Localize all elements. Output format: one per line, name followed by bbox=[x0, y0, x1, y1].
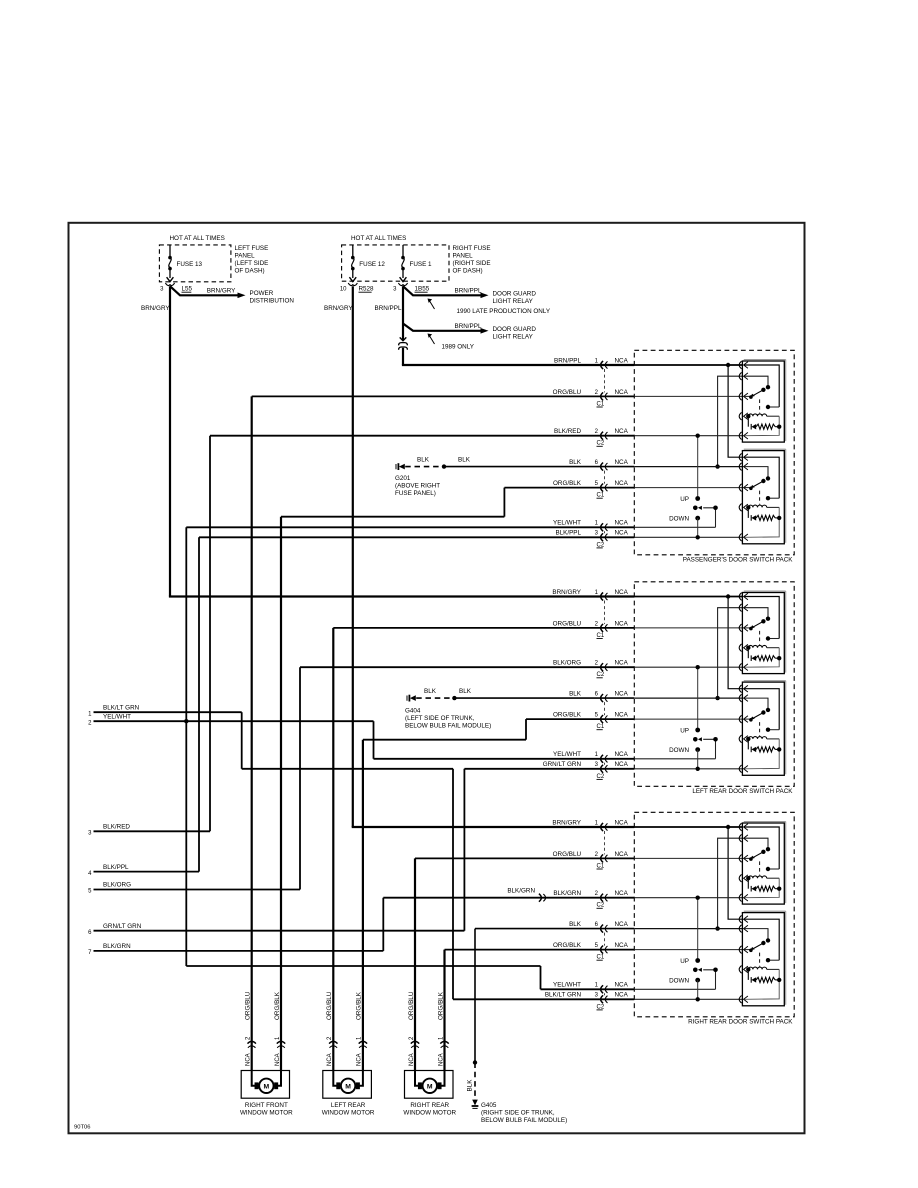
illumination resistor (RIGHT REAR DOOR SWITCH PACK switch unit A) bbox=[746, 876, 750, 880]
svg-text:90T06: 90T06 bbox=[74, 1125, 90, 1131]
svg-text:UP: UP bbox=[680, 958, 689, 965]
junction wiper corner (PASSENGER'S DOOR SWITCH PACK) bbox=[713, 506, 718, 511]
wire YEL/WHT trunk x=186 bbox=[185, 527, 187, 966]
svg-text:BELOW BULB FAIL MODULE): BELOW BULB FAIL MODULE) bbox=[481, 1117, 567, 1124]
junction resistor out (RIGHT REAR DOOR SWITCH PACK switch unit A) bbox=[777, 887, 781, 891]
motor M (right front window motor) bbox=[259, 1079, 273, 1093]
wire pin3 stub (LEFT REAR DOOR SWITCH PACK switch unit B) bbox=[745, 718, 751, 720]
left fuse panel box (dashed) bbox=[159, 245, 231, 282]
connector NCA (LEFT REAR DOOR SWITCH PACK BLK) bbox=[601, 694, 603, 702]
connector NCA (PASSENGER'S DOOR SWITCH PACK BLK) bbox=[601, 463, 603, 471]
wire ORG/BLU row into passenger pack bbox=[252, 395, 635, 397]
svg-text:LEFT REAR: LEFT REAR bbox=[331, 1102, 366, 1109]
wire pin3 stub (LEFT REAR DOOR SWITCH PACK switch unit A) bbox=[745, 627, 751, 629]
connector NCA (LEFT REAR DOOR SWITCH PACK ORG/BLU) bbox=[601, 624, 603, 632]
wire wiper stub (LEFT REAR DOOR SWITCH PACK) bbox=[703, 739, 715, 759]
illumination resistor (PASSENGER'S DOOR SWITCH PACK switch unit B) bbox=[746, 505, 750, 509]
svg-text:C2: C2 bbox=[597, 1004, 605, 1010]
svg-text:UP: UP bbox=[680, 496, 689, 503]
junction on row7 (RIGHT REAR DOOR SWITCH PACK) bbox=[696, 997, 700, 1001]
switch unit box (PASSENGER'S DOOR SWITCH PACK switch unit A) bbox=[744, 359, 786, 361]
wire ORG/BLK row into passenger pack bbox=[504, 487, 634, 489]
ground G201 bbox=[395, 464, 397, 469]
svg-text:R528: R528 bbox=[359, 286, 375, 293]
svg-text:WINDOW MOTOR: WINDOW MOTOR bbox=[322, 1109, 375, 1116]
connector NCA ORG/BLU (left rear window motor) bbox=[329, 1041, 337, 1043]
svg-text:YEL/WHT: YEL/WHT bbox=[103, 713, 131, 720]
motor terminals (right rear window motor) bbox=[418, 1083, 421, 1089]
svg-text:M: M bbox=[427, 1083, 433, 1090]
svg-text:C1: C1 bbox=[597, 863, 605, 869]
wire row4 inside (RIGHT REAR DOOR SWITCH PACK) bbox=[634, 928, 742, 930]
wire ORG/BLK jog horizontal y=516.7 bbox=[281, 516, 504, 518]
svg-text:1989 ONLY: 1989 ONLY bbox=[442, 343, 475, 350]
svg-text:NCA: NCA bbox=[615, 712, 629, 719]
svg-text:NCA: NCA bbox=[615, 819, 629, 826]
wire switch column lower (LEFT REAR DOOR SWITCH PACK) bbox=[697, 750, 699, 769]
connector inline BLK/GRN (right rear) bbox=[539, 894, 541, 902]
svg-text:RIGHT FRONT: RIGHT FRONT bbox=[245, 1102, 288, 1109]
svg-text:C1: C1 bbox=[597, 493, 605, 499]
svg-text:NCA: NCA bbox=[438, 1053, 444, 1066]
svg-text:PANEL: PANEL bbox=[453, 253, 474, 260]
contact wiper pair (RIGHT REAR DOOR SWITCH PACK) bbox=[693, 968, 698, 973]
svg-text:RIGHT REAR DOOR SWITCH PACK: RIGHT REAR DOOR SWITCH PACK bbox=[688, 1018, 793, 1025]
contact DOWN (RIGHT REAR DOOR SWITCH PACK) bbox=[695, 978, 700, 983]
svg-text:FUSE 12: FUSE 12 bbox=[359, 261, 385, 268]
wire common loop (RIGHT REAR DOOR SWITCH PACK switch unit B) bbox=[745, 919, 780, 960]
wire common loop (PASSENGER'S DOOR SWITCH PACK switch unit A) bbox=[745, 365, 780, 407]
connector NCA ORG/BLK (right front window motor) bbox=[277, 1041, 285, 1043]
wire power branch to lower box (RIGHT REAR DOOR SWITCH PACK) bbox=[728, 827, 742, 919]
svg-text:BLK: BLK bbox=[417, 456, 430, 463]
wire BLK solid to G405 bbox=[474, 929, 476, 1063]
svg-text:G201: G201 bbox=[395, 475, 411, 482]
mechanical link (dashed) (PASSENGER'S DOOR SWITCH PACK switch unit A) bbox=[759, 399, 761, 413]
svg-text:BRN/GRY: BRN/GRY bbox=[141, 305, 170, 312]
svg-text:LEFT REAR DOOR SWITCH PACK: LEFT REAR DOOR SWITCH PACK bbox=[692, 788, 793, 795]
wire BLK/PPL from main window switch pin 4 bbox=[94, 871, 200, 873]
contact upper stationary (LEFT REAR DOOR SWITCH PACK switch unit A) bbox=[766, 617, 770, 621]
svg-text:YEL/WHT: YEL/WHT bbox=[553, 751, 581, 758]
svg-text:NCA: NCA bbox=[615, 459, 629, 466]
junction resistor out (LEFT REAR DOOR SWITCH PACK switch unit A) bbox=[777, 656, 781, 660]
svg-text:YEL/WHT: YEL/WHT bbox=[553, 982, 581, 989]
svg-text:BLK/LT GRN: BLK/LT GRN bbox=[103, 704, 140, 711]
junction power branch (PASSENGER'S DOOR SWITCH PACK) bbox=[726, 363, 730, 367]
wire lamp loop return (PASSENGER'S DOOR SWITCH PACK switch unit B) bbox=[745, 507, 780, 537]
wire wiper stub (RIGHT REAR DOOR SWITCH PACK) bbox=[703, 970, 715, 990]
svg-text:ORG/BLU: ORG/BLU bbox=[408, 991, 415, 1020]
wire BLK/ORG trunk x=300 bbox=[299, 667, 301, 889]
svg-text:NCA: NCA bbox=[409, 1053, 415, 1066]
svg-text:ORG/BLU: ORG/BLU bbox=[553, 389, 582, 396]
connector pins at box edge (RIGHT REAR DOOR SWITCH PACK switch unit B) bbox=[739, 915, 741, 923]
svg-text:(LEFT SIDE: (LEFT SIDE bbox=[235, 260, 269, 267]
svg-text:NCA: NCA bbox=[275, 1053, 281, 1066]
svg-text:C1: C1 bbox=[597, 955, 605, 961]
right fuse panel box (dashed) bbox=[342, 245, 449, 281]
svg-text:10: 10 bbox=[340, 287, 347, 293]
contact lower stationary (LEFT REAR DOOR SWITCH PACK switch unit A) bbox=[766, 636, 770, 640]
junction on row7 (LEFT REAR DOOR SWITCH PACK) bbox=[696, 767, 700, 771]
wire BLK/RED from main window switch pin 3 bbox=[94, 830, 211, 832]
wire power branch to lower box (LEFT REAR DOOR SWITCH PACK) bbox=[728, 597, 742, 689]
wire YEL/WHT elbow trunk x=373.5 bbox=[373, 721, 375, 759]
svg-text:LEFT FUSE: LEFT FUSE bbox=[235, 245, 269, 252]
junction resistor out (PASSENGER'S DOOR SWITCH PACK switch unit B) bbox=[777, 516, 781, 520]
wire row5 inside (RIGHT REAR DOOR SWITCH PACK) bbox=[634, 949, 742, 951]
connector group dash C1 (LEFT REAR DOOR SWITCH PACK) bbox=[604, 601, 606, 624]
wire BLK/ORG from main window switch pin 5 bbox=[94, 889, 301, 891]
svg-text:OF DASH): OF DASH) bbox=[235, 268, 265, 275]
junction on row3 (LEFT REAR DOOR SWITCH PACK) bbox=[696, 665, 700, 669]
wire YEL/WHT row into right rear pack bbox=[541, 988, 635, 990]
connector pins at box edge (LEFT REAR DOOR SWITCH PACK switch unit B) bbox=[739, 685, 741, 693]
switch pack box RIGHT REAR DOOR SWITCH PACK (dashed) bbox=[634, 812, 794, 1017]
window motor box (right rear window motor) bbox=[405, 1071, 454, 1099]
wire power row inside (PASSENGER'S DOOR SWITCH PACK) bbox=[634, 364, 742, 366]
wire GRN/LT GRN row into left rear pack bbox=[464, 768, 634, 770]
wire row4 inside (LEFT REAR DOOR SWITCH PACK) bbox=[634, 697, 742, 699]
wire contact stub lower (LEFT REAR DOOR SWITCH PACK switch unit B) bbox=[768, 729, 779, 731]
junction BLK G405 bbox=[473, 1060, 477, 1064]
wire BLK/RED trunk x=210 bbox=[209, 436, 211, 832]
wire lamp loop return (PASSENGER'S DOOR SWITCH PACK switch unit A) bbox=[745, 416, 780, 436]
connector NCA (RIGHT REAR DOOR SWITCH PACK BRN/GRY) bbox=[601, 823, 603, 831]
junction ground branch (RIGHT REAR DOOR SWITCH PACK) bbox=[715, 926, 719, 930]
svg-text:FUSE PANEL): FUSE PANEL) bbox=[395, 490, 436, 497]
wire row5 inside (PASSENGER'S DOOR SWITCH PACK) bbox=[634, 487, 742, 489]
wire BLK dashed to G404 bbox=[416, 697, 452, 699]
svg-text:BLK: BLK bbox=[458, 456, 471, 463]
connector NCA (RIGHT REAR DOOR SWITCH PACK BLK/LT GRN) bbox=[601, 995, 603, 1003]
wire switch column upper (LEFT REAR DOOR SWITCH PACK) bbox=[697, 667, 699, 730]
contact DOWN (LEFT REAR DOOR SWITCH PACK) bbox=[695, 747, 700, 752]
wire ground branch to upper box (RIGHT REAR DOOR SWITCH PACK) bbox=[718, 838, 743, 928]
mechanical link (dashed) (LEFT REAR DOOR SWITCH PACK switch unit A) bbox=[759, 631, 761, 645]
junction resistor out (PASSENGER'S DOOR SWITCH PACK switch unit A) bbox=[777, 425, 781, 429]
wire row3 inside (RIGHT REAR DOOR SWITCH PACK) bbox=[634, 897, 742, 899]
wire lamp loop return (RIGHT REAR DOOR SWITCH PACK switch unit A) bbox=[745, 878, 780, 898]
wire BRN/GRY row into right rear pack bbox=[352, 826, 635, 828]
illumination resistor (LEFT REAR DOOR SWITCH PACK switch unit B) bbox=[746, 737, 750, 741]
connector NCA (PASSENGER'S DOOR SWITCH PACK ORG/BLU) bbox=[601, 392, 603, 400]
wire switch column lower (PASSENGER'S DOOR SWITCH PACK) bbox=[697, 518, 699, 537]
svg-text:BRN/PPL: BRN/PPL bbox=[554, 357, 581, 364]
svg-text:BLK/GRN: BLK/GRN bbox=[507, 888, 535, 895]
motor M (left rear window motor) bbox=[341, 1079, 355, 1093]
wire power row inside (LEFT REAR DOOR SWITCH PACK) bbox=[634, 596, 742, 598]
switch lever (RIGHT REAR DOOR SWITCH PACK switch unit A) bbox=[761, 850, 765, 854]
wire BLK row into left rear pack bbox=[454, 697, 634, 699]
diagram border frame bbox=[69, 223, 805, 1134]
connector NCA (PASSENGER'S DOOR SWITCH PACK BLK/RED) bbox=[601, 432, 603, 440]
junction power branch (RIGHT REAR DOOR SWITCH PACK) bbox=[726, 825, 730, 829]
svg-text:BRN/GRY: BRN/GRY bbox=[552, 819, 581, 826]
wire YEL/WHT from main window switch pin 2 bbox=[94, 720, 374, 722]
junction power branch (LEFT REAR DOOR SWITCH PACK) bbox=[726, 594, 730, 598]
motor terminals (left rear window motor) bbox=[337, 1083, 340, 1089]
junction BLK G404 bbox=[452, 696, 456, 700]
wire BRN/GRY trunk from fuse 13 to left rear pack bbox=[169, 286, 171, 596]
svg-text:LIGHT RELAY: LIGHT RELAY bbox=[493, 298, 534, 305]
wire from pin2 to upper contact (PASSENGER'S DOOR SWITCH PACK switch unit B) bbox=[745, 467, 769, 479]
connector NCA ORG/BLK (right rear window motor) bbox=[440, 1041, 448, 1043]
wire ORG/BLU row into left rear pack bbox=[333, 627, 634, 629]
contact lower stationary (RIGHT REAR DOOR SWITCH PACK switch unit A) bbox=[766, 867, 770, 871]
wire switch column upper (RIGHT REAR DOOR SWITCH PACK) bbox=[697, 898, 699, 961]
wire from pin2 to upper contact (LEFT REAR DOOR SWITCH PACK switch unit B) bbox=[745, 698, 769, 710]
wire from pin2 to upper contact (LEFT REAR DOOR SWITCH PACK switch unit A) bbox=[745, 608, 769, 619]
wire BLK/PPL trunk x=199 bbox=[198, 537, 200, 871]
svg-text:RIGHT FUSE: RIGHT FUSE bbox=[453, 245, 491, 252]
switch pack box PASSENGER'S DOOR SWITCH PACK (dashed) bbox=[634, 350, 794, 555]
svg-text:PANEL: PANEL bbox=[235, 253, 256, 260]
wire ORG/BLK row into right rear pack bbox=[445, 949, 635, 951]
wire BLK dashed to G405 bbox=[474, 1063, 476, 1101]
wire BRN/PPL branch to door guard light relay (1990) bbox=[403, 286, 481, 295]
switch lever (PASSENGER'S DOOR SWITCH PACK switch unit B) bbox=[761, 479, 765, 483]
connector NCA (RIGHT REAR DOOR SWITCH PACK ORG/BLU) bbox=[601, 854, 603, 862]
wire row6 inside (LEFT REAR DOOR SWITCH PACK) bbox=[634, 758, 715, 760]
wire switch column upper (PASSENGER'S DOOR SWITCH PACK) bbox=[697, 436, 699, 499]
svg-text:NCA: NCA bbox=[615, 480, 629, 487]
switch unit box (RIGHT REAR DOOR SWITCH PACK switch unit A) bbox=[744, 821, 786, 823]
svg-text:C2: C2 bbox=[597, 903, 605, 909]
wire ORG/BLK into motor (right rear window motor) bbox=[439, 1071, 444, 1086]
svg-text:G405: G405 bbox=[481, 1102, 497, 1109]
wire switch column lower (RIGHT REAR DOOR SWITCH PACK) bbox=[697, 980, 699, 999]
junction on row3 (RIGHT REAR DOOR SWITCH PACK) bbox=[696, 896, 700, 900]
wire ORG/BLU into motor (left rear window motor) bbox=[333, 1071, 338, 1086]
wire BLK row into right rear pack bbox=[475, 928, 634, 930]
svg-text:C1: C1 bbox=[597, 401, 605, 407]
wire row4 inside (PASSENGER'S DOOR SWITCH PACK) bbox=[634, 466, 742, 468]
wire YEL/WHT jog horizontal y=966 bbox=[186, 965, 540, 967]
wire ORG/BLU into motor (right rear window motor) bbox=[415, 1071, 420, 1086]
wire BLK/LT GRN from main window switch pin 1 bbox=[94, 711, 242, 713]
junction on row7 (PASSENGER'S DOOR SWITCH PACK) bbox=[696, 535, 700, 539]
wire BRN/PPL branch to door guard light relay (1989) bbox=[403, 324, 481, 331]
wire contact stub lower (PASSENGER'S DOOR SWITCH PACK switch unit A) bbox=[768, 406, 779, 408]
svg-text:NCA: NCA bbox=[615, 992, 629, 999]
illumination resistor (PASSENGER'S DOOR SWITCH PACK switch unit A) bbox=[746, 414, 750, 418]
wire from pin2 to upper contact (RIGHT REAR DOOR SWITCH PACK switch unit B) bbox=[745, 929, 769, 941]
junction resistor out (RIGHT REAR DOOR SWITCH PACK switch unit B) bbox=[777, 978, 781, 982]
svg-text:NCA: NCA bbox=[357, 1053, 363, 1066]
svg-text:NCA: NCA bbox=[615, 691, 629, 698]
contact upper stationary (PASSENGER'S DOOR SWITCH PACK switch unit A) bbox=[766, 385, 770, 389]
svg-text:(RIGHT SIDE OF TRUNK,: (RIGHT SIDE OF TRUNK, bbox=[481, 1109, 555, 1116]
ground G404 bbox=[406, 696, 408, 701]
illumination resistor (LEFT REAR DOOR SWITCH PACK switch unit A) bbox=[746, 646, 750, 650]
connector NCA (RIGHT REAR DOOR SWITCH PACK BLK/GRN) bbox=[601, 894, 603, 902]
wire ground branch to upper box (LEFT REAR DOOR SWITCH PACK) bbox=[718, 608, 743, 698]
junction ground branch (LEFT REAR DOOR SWITCH PACK) bbox=[715, 696, 719, 700]
svg-text:NCA: NCA bbox=[615, 389, 629, 396]
wire ORG/BLK jog vertical x=526 (left rear pack) bbox=[525, 719, 527, 740]
connector NCA (RIGHT REAR DOOR SWITCH PACK ORG/BLK) bbox=[601, 946, 603, 954]
ground G405 bbox=[472, 1107, 477, 1109]
svg-text:(RIGHT SIDE: (RIGHT SIDE bbox=[453, 260, 491, 267]
contact lower stationary (RIGHT REAR DOOR SWITCH PACK switch unit B) bbox=[766, 958, 770, 962]
wire lamp loop return (LEFT REAR DOOR SWITCH PACK switch unit A) bbox=[745, 648, 780, 668]
svg-text:ORG/BLK: ORG/BLK bbox=[553, 942, 582, 949]
svg-text:WINDOW MOTOR: WINDOW MOTOR bbox=[403, 1109, 456, 1116]
wire ORG/BLU into motor (right front window motor) bbox=[252, 1071, 257, 1086]
switch unit box (LEFT REAR DOOR SWITCH PACK switch unit B) bbox=[744, 680, 786, 682]
mechanical link (dashed) (LEFT REAR DOOR SWITCH PACK switch unit B) bbox=[759, 722, 761, 736]
wire BRN/PPL row into passenger pack bbox=[402, 364, 634, 366]
wire ORG/BLK trunk to left rear motor bbox=[362, 740, 364, 1071]
svg-text:NCA: NCA bbox=[615, 942, 629, 949]
svg-text:BRN/PPL: BRN/PPL bbox=[455, 288, 482, 295]
svg-text:DOWN: DOWN bbox=[669, 977, 689, 984]
svg-text:BLK: BLK bbox=[467, 1079, 474, 1092]
wire lamp loop return (LEFT REAR DOOR SWITCH PACK switch unit B) bbox=[745, 739, 780, 769]
connector NCA (RIGHT REAR DOOR SWITCH PACK BLK) bbox=[601, 925, 603, 933]
connector NCA (PASSENGER'S DOOR SWITCH PACK BRN/PPL) bbox=[601, 361, 603, 369]
wire ORG/BLK into motor (left rear window motor) bbox=[358, 1071, 363, 1086]
motor M (right rear window motor) bbox=[423, 1079, 437, 1093]
annotation arrow (1989 only) bbox=[429, 335, 435, 344]
svg-text:C1: C1 bbox=[597, 633, 605, 639]
svg-text:BLK/RED: BLK/RED bbox=[103, 824, 130, 831]
svg-text:HOT AT ALL TIMES: HOT AT ALL TIMES bbox=[351, 235, 406, 242]
wire ORG/BLK jog horizontal y=739.7 bbox=[363, 739, 526, 741]
contact lower stationary (LEFT REAR DOOR SWITCH PACK switch unit B) bbox=[766, 728, 770, 732]
mechanical link (dashed) (RIGHT REAR DOOR SWITCH PACK switch unit B) bbox=[759, 953, 761, 967]
fuse FUSE 13 bbox=[169, 245, 171, 256]
connector pins at box edge (LEFT REAR DOOR SWITCH PACK switch unit A) bbox=[739, 593, 741, 601]
svg-text:GRN/LT GRN: GRN/LT GRN bbox=[103, 923, 142, 930]
wire row2 inside (PASSENGER'S DOOR SWITCH PACK) bbox=[634, 395, 742, 397]
svg-text:M: M bbox=[264, 1083, 270, 1090]
contact lower stationary (PASSENGER'S DOOR SWITCH PACK switch unit B) bbox=[766, 496, 770, 500]
wire power branch to lower box (PASSENGER'S DOOR SWITCH PACK) bbox=[728, 365, 742, 457]
connector NCA (PASSENGER'S DOOR SWITCH PACK YEL/WHT) bbox=[601, 523, 603, 531]
wire ORG/BLU row into right rear pack bbox=[415, 857, 634, 859]
wire BLK/ORG row into left rear pack bbox=[300, 666, 634, 668]
wire pin3 stub (RIGHT REAR DOOR SWITCH PACK switch unit A) bbox=[745, 857, 751, 859]
junction YEL/WHT bundle bbox=[184, 719, 188, 723]
svg-text:ORG/BLU: ORG/BLU bbox=[245, 991, 252, 1020]
wire common loop (LEFT REAR DOOR SWITCH PACK switch unit B) bbox=[745, 689, 780, 730]
wire BLK/GRN elbow x=383.3 bbox=[382, 898, 384, 951]
svg-text:HOT AT ALL TIMES: HOT AT ALL TIMES bbox=[170, 235, 225, 242]
wire BLK/PPL row into passenger pack bbox=[199, 536, 634, 538]
wire BRN/GRY fuse13 feed branch to power distribution bbox=[170, 286, 238, 295]
connector pins at box edge (PASSENGER'S DOOR SWITCH PACK switch unit B) bbox=[739, 453, 741, 461]
wire BLK/GRN from main window switch pin 7 bbox=[94, 950, 384, 952]
svg-text:NCA: NCA bbox=[615, 921, 629, 928]
svg-text:RIGHT REAR: RIGHT REAR bbox=[410, 1102, 449, 1109]
svg-text:NCA: NCA bbox=[615, 660, 629, 667]
svg-text:NCA: NCA bbox=[615, 890, 629, 897]
svg-text:ORG/BLK: ORG/BLK bbox=[274, 991, 281, 1020]
wire lamp loop return (RIGHT REAR DOOR SWITCH PACK switch unit B) bbox=[745, 969, 780, 999]
svg-text:BLK/ORG: BLK/ORG bbox=[103, 882, 131, 889]
connector NCA ORG/BLU (right front window motor) bbox=[248, 1041, 256, 1043]
diode and resistor (RIGHT REAR DOOR SWITCH PACK switch unit B) bbox=[747, 969, 749, 980]
svg-text:PASSENGER'S DOOR SWITCH PACK: PASSENGER'S DOOR SWITCH PACK bbox=[683, 556, 794, 563]
contact upper stationary (RIGHT REAR DOOR SWITCH PACK switch unit B) bbox=[766, 938, 770, 942]
wire contact stub lower (RIGHT REAR DOOR SWITCH PACK switch unit A) bbox=[768, 868, 779, 870]
connector NCA (LEFT REAR DOOR SWITCH PACK YEL/WHT) bbox=[601, 755, 603, 763]
svg-text:BLK: BLK bbox=[569, 459, 582, 466]
wire power row inside (RIGHT REAR DOOR SWITCH PACK) bbox=[634, 826, 742, 828]
wire contact stub lower (PASSENGER'S DOOR SWITCH PACK switch unit B) bbox=[768, 497, 779, 499]
mechanical link (dashed) (PASSENGER'S DOOR SWITCH PACK switch unit B) bbox=[759, 491, 761, 505]
svg-text:1990 LATE PRODUCTION ONLY: 1990 LATE PRODUCTION ONLY bbox=[457, 308, 551, 315]
svg-text:FUSE 1: FUSE 1 bbox=[410, 261, 433, 268]
svg-text:1B55: 1B55 bbox=[415, 286, 430, 293]
connector NCA ORG/BLK (left rear window motor) bbox=[359, 1041, 367, 1043]
svg-text:NCA: NCA bbox=[615, 520, 629, 527]
wire BLK/GRN row into right rear pack bbox=[383, 897, 634, 899]
svg-text:DISTRIBUTION: DISTRIBUTION bbox=[250, 297, 295, 304]
svg-text:ORG/BLK: ORG/BLK bbox=[553, 480, 582, 487]
svg-text:DOOR GUARD: DOOR GUARD bbox=[493, 291, 537, 298]
connector NCA (LEFT REAR DOOR SWITCH PACK BRN/GRY) bbox=[601, 593, 603, 601]
svg-text:BLK/GRN: BLK/GRN bbox=[103, 943, 131, 950]
svg-text:OF DASH): OF DASH) bbox=[453, 268, 483, 275]
connector NCA (LEFT REAR DOOR SWITCH PACK BLK/ORG) bbox=[601, 663, 603, 671]
wire ORG/BLK trunk to right front motor bbox=[280, 517, 282, 1071]
svg-text:C2: C2 bbox=[597, 441, 605, 447]
svg-text:BLK/PPL: BLK/PPL bbox=[103, 864, 129, 871]
connector NCA (RIGHT REAR DOOR SWITCH PACK YEL/WHT) bbox=[601, 985, 603, 993]
wire BRN/PPL trunk below connector to passenger pack row bbox=[402, 348, 404, 365]
svg-text:NCA: NCA bbox=[615, 761, 629, 768]
contact lower stationary (PASSENGER'S DOOR SWITCH PACK switch unit A) bbox=[766, 405, 770, 409]
diode and resistor (LEFT REAR DOOR SWITCH PACK switch unit A) bbox=[747, 648, 749, 659]
svg-text:ORG/BLK: ORG/BLK bbox=[553, 712, 582, 719]
svg-text:C1: C1 bbox=[597, 724, 605, 730]
diode and resistor (RIGHT REAR DOOR SWITCH PACK switch unit A) bbox=[747, 878, 749, 889]
wire BLK/LT GRN trunk x=453 bbox=[452, 769, 454, 1000]
wire GRN/LT GRN from main window switch pin 6 bbox=[94, 930, 465, 932]
svg-text:DOWN: DOWN bbox=[669, 515, 689, 522]
wire BLK/RED row into passenger pack bbox=[210, 435, 634, 437]
switch lever (PASSENGER'S DOOR SWITCH PACK switch unit A) bbox=[761, 388, 765, 392]
wire row6 inside (RIGHT REAR DOOR SWITCH PACK) bbox=[634, 988, 715, 990]
motor terminals (right front window motor) bbox=[255, 1083, 258, 1089]
fuse FUSE 1 bbox=[402, 245, 404, 256]
svg-text:NCA: NCA bbox=[615, 751, 629, 758]
svg-text:C2: C2 bbox=[597, 774, 605, 780]
svg-text:(ABOVE RIGHT: (ABOVE RIGHT bbox=[395, 482, 440, 489]
window motor box (right front window motor) bbox=[241, 1071, 289, 1099]
svg-text:BLK: BLK bbox=[569, 691, 582, 698]
contact upper stationary (PASSENGER'S DOOR SWITCH PACK switch unit B) bbox=[766, 476, 770, 480]
svg-text:NCA: NCA bbox=[615, 428, 629, 435]
svg-text:BLK/PPL: BLK/PPL bbox=[555, 530, 581, 537]
svg-text:NCA: NCA bbox=[615, 357, 629, 364]
switch unit box (RIGHT REAR DOOR SWITCH PACK switch unit B) bbox=[744, 910, 786, 912]
svg-text:ORG/BLU: ORG/BLU bbox=[553, 851, 582, 858]
contact DOWN (PASSENGER'S DOOR SWITCH PACK) bbox=[695, 516, 700, 521]
connector on BRN/PPL trunk bbox=[400, 337, 407, 340]
junction ground branch (PASSENGER'S DOOR SWITCH PACK) bbox=[715, 464, 719, 468]
wire wiper stub (PASSENGER'S DOOR SWITCH PACK) bbox=[703, 508, 715, 528]
svg-text:NCA: NCA bbox=[615, 620, 629, 627]
illumination resistor (RIGHT REAR DOOR SWITCH PACK switch unit B) bbox=[746, 967, 750, 971]
wire BRN/GRY trunk from fuse 12 to right rear pack bbox=[352, 286, 354, 827]
svg-text:NCA: NCA bbox=[615, 589, 629, 596]
wire ORG/BLU trunk to left rear motor bbox=[332, 628, 334, 1071]
